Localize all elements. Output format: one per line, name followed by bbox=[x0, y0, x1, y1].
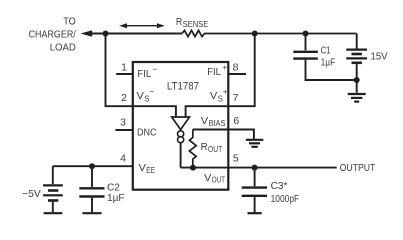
svg-text:EE: EE bbox=[146, 166, 155, 175]
svg-text:V: V bbox=[210, 90, 217, 102]
svg-text:LT1787: LT1787 bbox=[167, 81, 199, 93]
svg-text:1µF: 1µF bbox=[321, 57, 336, 68]
svg-text:C2: C2 bbox=[107, 182, 120, 193]
svg-text:V: V bbox=[201, 115, 208, 127]
svg-text:1000pF: 1000pF bbox=[271, 194, 300, 205]
svg-text:C3*: C3* bbox=[271, 181, 288, 192]
svg-text:TO: TO bbox=[63, 16, 76, 28]
svg-text:CHARGER/: CHARGER/ bbox=[29, 29, 76, 41]
svg-text:2: 2 bbox=[121, 92, 127, 104]
svg-text:R: R bbox=[201, 141, 208, 153]
svg-text:+: + bbox=[223, 87, 228, 97]
svg-text:1: 1 bbox=[121, 61, 127, 73]
svg-text:V: V bbox=[139, 162, 146, 174]
svg-text:OUTPUT: OUTPUT bbox=[340, 162, 376, 174]
svg-text:7: 7 bbox=[233, 92, 239, 104]
svg-text:1µF: 1µF bbox=[107, 193, 125, 204]
svg-text:FIL: FIL bbox=[207, 66, 221, 78]
svg-text:15V: 15V bbox=[371, 52, 388, 63]
svg-text:V: V bbox=[137, 90, 144, 102]
svg-text:DNC: DNC bbox=[137, 126, 157, 138]
svg-text:OUT: OUT bbox=[208, 145, 222, 154]
svg-text:−: − bbox=[149, 87, 154, 97]
svg-text:+: + bbox=[222, 62, 227, 72]
svg-text:3: 3 bbox=[120, 116, 126, 128]
svg-text:BIAS: BIAS bbox=[209, 119, 226, 128]
svg-text:LOAD: LOAD bbox=[50, 42, 76, 54]
svg-text:6: 6 bbox=[233, 115, 239, 127]
svg-text:V: V bbox=[204, 172, 211, 184]
svg-text:SENSE: SENSE bbox=[183, 20, 209, 29]
svg-text:C1: C1 bbox=[321, 46, 331, 57]
svg-text:4: 4 bbox=[120, 152, 126, 164]
svg-text:5: 5 bbox=[233, 152, 239, 164]
svg-text:OUT: OUT bbox=[212, 176, 225, 185]
svg-text:8: 8 bbox=[233, 61, 239, 73]
svg-text:−: − bbox=[152, 64, 157, 74]
svg-text:−5V: −5V bbox=[22, 189, 41, 200]
svg-text:FIL: FIL bbox=[137, 68, 151, 80]
